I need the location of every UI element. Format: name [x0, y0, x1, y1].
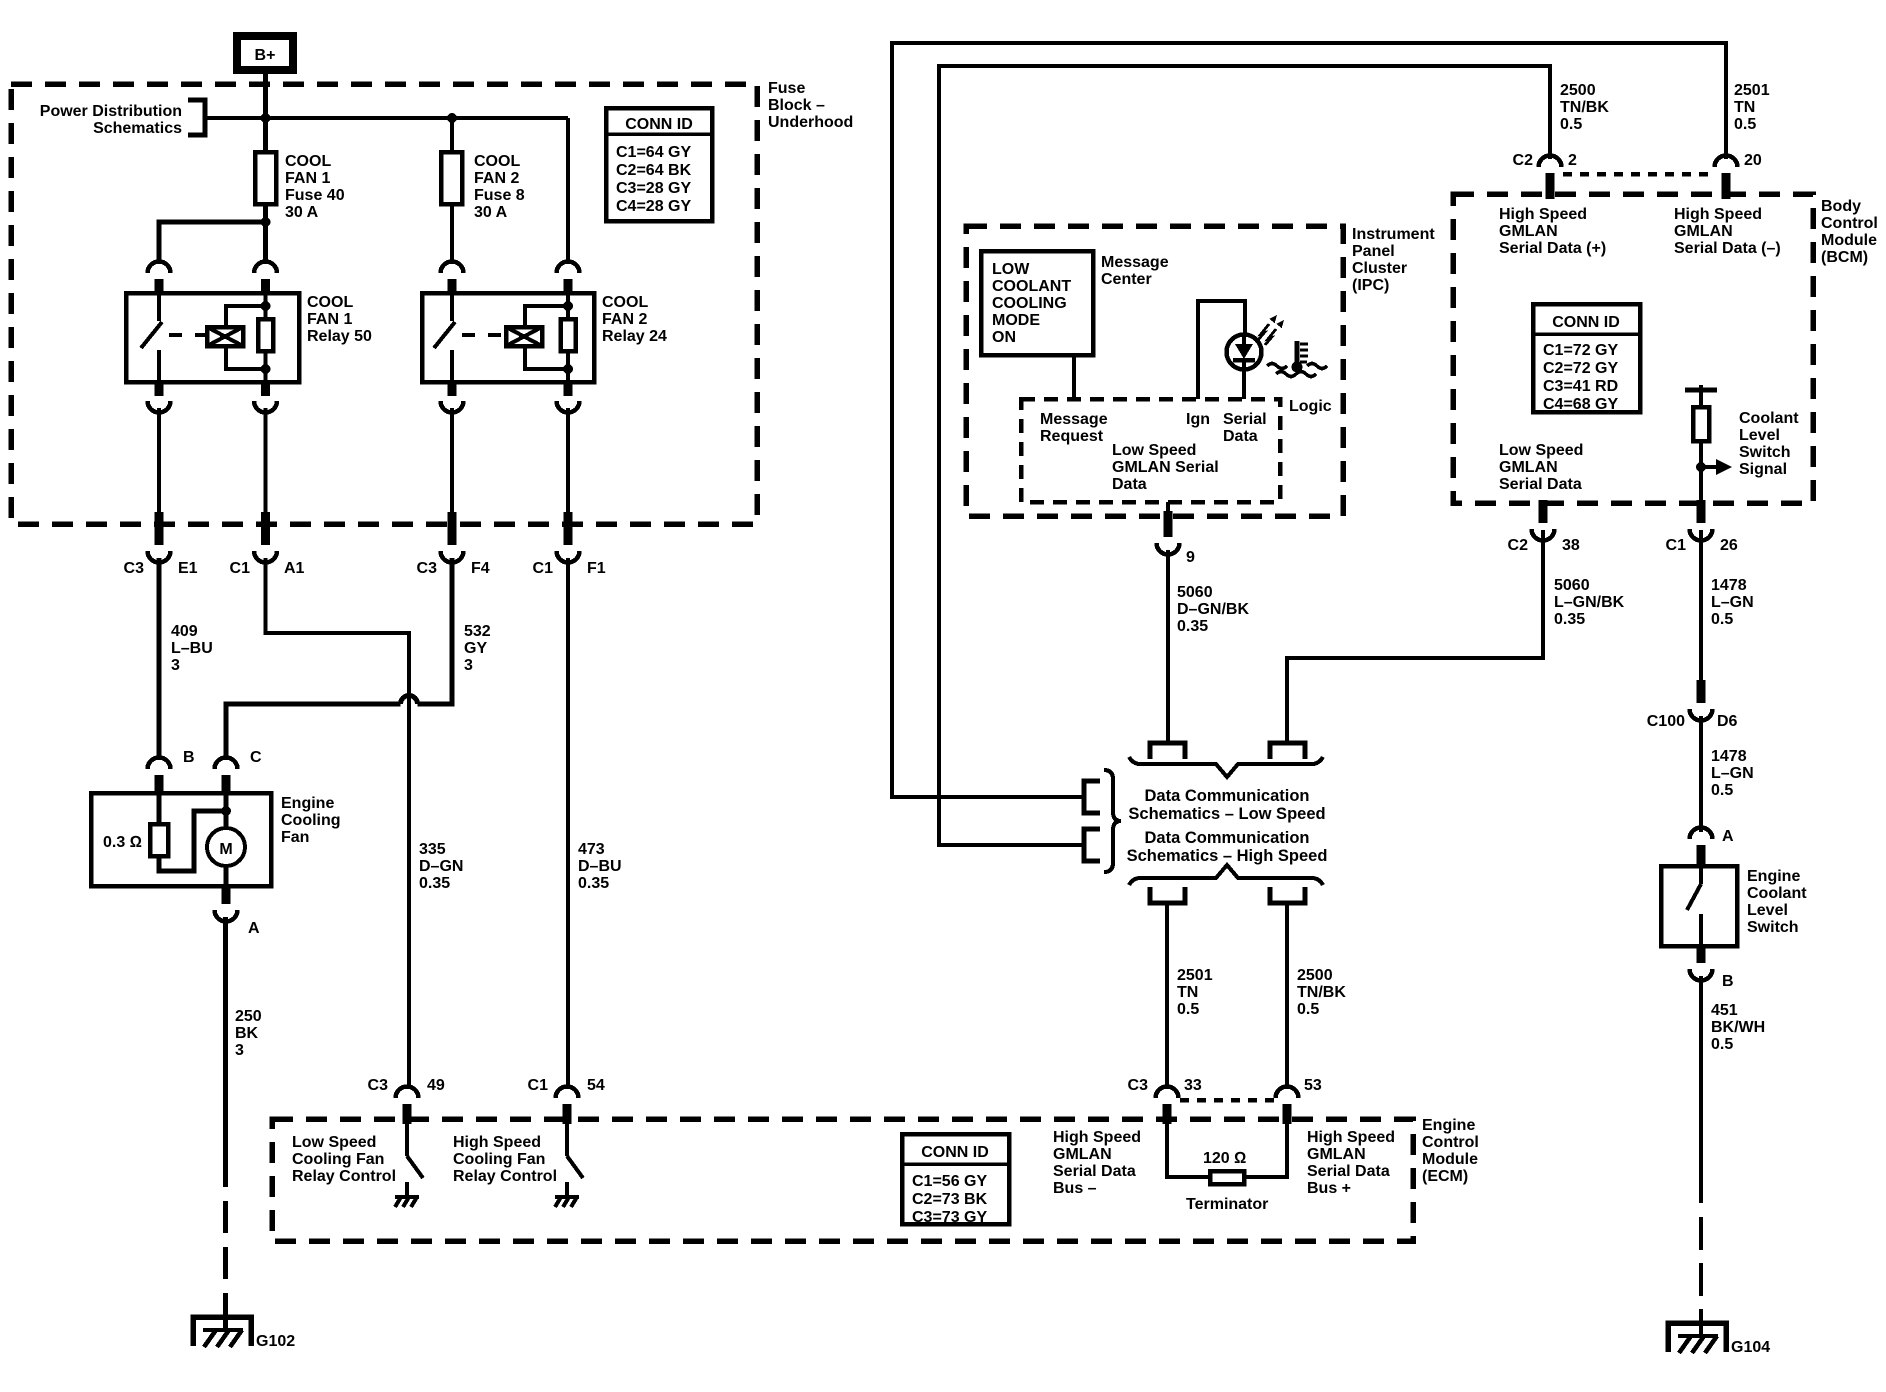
- svg-text:COOLANT: COOLANT: [992, 278, 1071, 295]
- fuse block underhood dashed box: [11, 84, 757, 524]
- svg-text:Serial Data (–): Serial Data (–): [1674, 240, 1781, 257]
- resistor terminator 120 ohm: [1167, 1124, 1287, 1213]
- resistor 0.3 ohm: [103, 795, 168, 856]
- svg-text:(ECM): (ECM): [1422, 1168, 1468, 1185]
- svg-text:FAN 1: FAN 1: [307, 311, 352, 328]
- wire Ign feed: [1198, 301, 1245, 399]
- relay K2 coil resistor: [561, 295, 576, 382]
- svg-text:D–GN: D–GN: [419, 858, 463, 875]
- brace lower: [1129, 865, 1323, 885]
- svg-text:473: 473: [578, 841, 605, 858]
- svg-text:Module: Module: [1821, 232, 1877, 249]
- svg-text:9: 9: [1186, 549, 1195, 566]
- wire dashed link pins 2-20: [1563, 172, 1713, 177]
- wire power rail: [205, 116, 568, 120]
- switch high speed relay control driver: [567, 1124, 583, 1197]
- svg-text:Low Speed: Low Speed: [292, 1134, 376, 1151]
- svg-text:C3: C3: [368, 1077, 389, 1094]
- connector C3 pin F4: [417, 512, 490, 577]
- svg-text:E1: E1: [178, 560, 198, 577]
- IPC dashed box: [966, 226, 1343, 516]
- wire relay2 switch to connector F4: [450, 408, 454, 514]
- svg-text:Terminator: Terminator: [1186, 1196, 1268, 1213]
- wire 409 L-BU 3: [159, 558, 213, 756]
- wire dashed link pins 33-53: [1180, 1098, 1274, 1103]
- wire 335 D-GN 0.35: [266, 558, 464, 1088]
- label High Speed GMLAN Serial Data (+): [1499, 206, 1606, 257]
- relay K2 switch contact: [434, 295, 455, 382]
- off-page symbol upper right: [1270, 743, 1305, 759]
- svg-text:F4: F4: [471, 560, 490, 577]
- svg-text:0.5: 0.5: [1711, 782, 1733, 799]
- relay K2 actuator dashed link: [462, 333, 506, 337]
- svg-text:Cooling Fan: Cooling Fan: [453, 1151, 545, 1168]
- node K2 coil top junction: [563, 301, 573, 311]
- CONN ID table fuse block: [606, 108, 712, 221]
- svg-text:LOW: LOW: [992, 261, 1030, 278]
- svg-text:33: 33: [1184, 1077, 1202, 1094]
- svg-text:Serial Data (+): Serial Data (+): [1499, 240, 1606, 257]
- svg-text:Switch: Switch: [1747, 919, 1799, 936]
- svg-text:C3=41 RD: C3=41 RD: [1543, 378, 1618, 395]
- svg-text:250: 250: [235, 1008, 262, 1025]
- CONN ID table BCM: [1533, 304, 1640, 413]
- connector BCM C2 pin 38: [1508, 500, 1580, 554]
- svg-text:High Speed: High Speed: [1499, 206, 1587, 223]
- wire resistor to motor: [159, 811, 226, 871]
- svg-text:C1: C1: [1666, 537, 1687, 554]
- wire 1478 L-GN 0.5 lower: [1701, 716, 1754, 832]
- svg-text:Control: Control: [1821, 215, 1878, 232]
- svg-text:GMLAN: GMLAN: [1499, 223, 1558, 240]
- wire fuse1 to relay1 coil pin: [263, 204, 268, 264]
- svg-text:0.5: 0.5: [1734, 116, 1756, 133]
- svg-text:Serial: Serial: [1223, 411, 1267, 428]
- svg-text:BK/WH: BK/WH: [1711, 1019, 1765, 1036]
- svg-text:BK: BK: [235, 1025, 259, 1042]
- svg-text:Ign: Ign: [1186, 411, 1210, 428]
- svg-text:C1: C1: [533, 560, 554, 577]
- svg-text:B: B: [1722, 973, 1734, 990]
- svg-text:Cooling: Cooling: [281, 812, 341, 829]
- svg-text:2500: 2500: [1297, 967, 1333, 984]
- node Power Distribution Schematics: [40, 100, 205, 137]
- svg-text:Schematics: Schematics: [93, 120, 182, 137]
- wire K2 solenoid branch loop: [525, 306, 568, 369]
- svg-text:Center: Center: [1101, 271, 1152, 288]
- fuse COOL FAN 1 Fuse 40: [255, 152, 345, 221]
- svg-text:30 A: 30 A: [285, 204, 319, 221]
- svg-text:L–GN/BK: L–GN/BK: [1554, 594, 1625, 611]
- wire relay2 coil to connector F1: [566, 408, 570, 514]
- svg-text:2: 2: [1568, 152, 1577, 169]
- svg-text:Fuse: Fuse: [768, 80, 805, 97]
- svg-text:TN/BK: TN/BK: [1560, 99, 1609, 116]
- connector ECM C1 pin 54: [528, 1077, 605, 1124]
- connector IPC pin 9: [1157, 511, 1196, 566]
- LED light arrows: [1258, 315, 1284, 345]
- svg-text:53: 53: [1304, 1077, 1322, 1094]
- wire 473 D-BU 0.35: [568, 558, 622, 1088]
- svg-text:C1=56 GY: C1=56 GY: [912, 1173, 987, 1190]
- svg-text:Cluster: Cluster: [1352, 260, 1407, 277]
- svg-text:A1: A1: [284, 560, 305, 577]
- svg-text:C3: C3: [1128, 1077, 1149, 1094]
- svg-text:Level: Level: [1747, 902, 1788, 919]
- label Body Control Module (BCM): [1821, 198, 1878, 266]
- svg-text:C4=28 GY: C4=28 GY: [616, 198, 691, 215]
- svg-text:Fan: Fan: [281, 829, 309, 846]
- svg-text:High Speed: High Speed: [453, 1134, 541, 1151]
- svg-text:MODE: MODE: [992, 312, 1040, 329]
- label High Speed GMLAN Serial Data (-): [1674, 206, 1781, 257]
- arrow coolant level switch signal: [1701, 459, 1732, 475]
- svg-text:L–GN: L–GN: [1711, 594, 1754, 611]
- svg-text:Bus +: Bus +: [1307, 1180, 1351, 1197]
- engine coolant level switch box: [1661, 866, 1807, 946]
- label Low Speed Cooling Fan Relay Control: [292, 1134, 396, 1185]
- svg-text:COOL: COOL: [285, 153, 331, 170]
- svg-text:Serial Data: Serial Data: [1053, 1163, 1136, 1180]
- connector BCM C2 pin 2: [1513, 152, 1577, 199]
- svg-text:COOLING: COOLING: [992, 295, 1067, 312]
- svg-text:C2=73 BK: C2=73 BK: [912, 1191, 988, 1208]
- svg-text:High Speed: High Speed: [1307, 1129, 1395, 1146]
- svg-text:Serial Data: Serial Data: [1499, 476, 1582, 493]
- svg-text:C: C: [250, 749, 262, 766]
- svg-text:Relay 50: Relay 50: [307, 328, 372, 345]
- svg-text:Level: Level: [1739, 427, 1780, 444]
- svg-text:GMLAN: GMLAN: [1499, 459, 1558, 476]
- svg-text:GMLAN: GMLAN: [1674, 223, 1733, 240]
- svg-text:L–BU: L–BU: [171, 640, 213, 657]
- svg-text:GMLAN: GMLAN: [1307, 1146, 1366, 1163]
- label High Speed Cooling Fan Relay Control: [453, 1134, 557, 1185]
- logic dashed box: [1021, 399, 1280, 502]
- connector fan pin C: [215, 749, 263, 795]
- svg-text:B+: B+: [255, 47, 276, 64]
- ground G104: [1668, 1323, 1770, 1356]
- svg-text:120 Ω: 120 Ω: [1203, 1150, 1246, 1167]
- ground internal low speed driver: [395, 1197, 419, 1207]
- svg-text:0.5: 0.5: [1560, 116, 1582, 133]
- label High Speed GMLAN Serial Data Bus +: [1307, 1129, 1395, 1197]
- connector relay1 pin 87 lower: [148, 381, 171, 413]
- svg-text:CONN ID: CONN ID: [625, 116, 693, 133]
- relay K1 switch contact: [141, 295, 162, 382]
- connector C3 pin E1: [124, 512, 198, 577]
- connector relay2 pin 30 (F4 side): [441, 262, 464, 296]
- svg-text:20: 20: [1744, 152, 1762, 169]
- svg-text:Data: Data: [1223, 428, 1258, 445]
- svg-text:C3: C3: [124, 560, 145, 577]
- relay K1 COOL FAN 1 Relay 50: [126, 293, 372, 382]
- svg-text:Message: Message: [1040, 411, 1108, 428]
- svg-text:2500: 2500: [1560, 82, 1596, 99]
- svg-text:Instrument: Instrument: [1352, 226, 1435, 243]
- ground internal high speed driver: [555, 1197, 579, 1207]
- svg-text:Logic: Logic: [1289, 398, 1332, 415]
- svg-text:3: 3: [171, 657, 180, 674]
- svg-text:Block –: Block –: [768, 97, 825, 114]
- svg-text:Switch: Switch: [1739, 444, 1791, 461]
- svg-text:0.5: 0.5: [1297, 1001, 1319, 1018]
- connector ECM C3 pin 49: [368, 1077, 445, 1124]
- svg-text:C2: C2: [1508, 537, 1529, 554]
- connector relay2 pin 85 lower: [557, 381, 580, 413]
- wire 532 GY 3: [226, 558, 491, 756]
- svg-text:2501: 2501: [1734, 82, 1770, 99]
- relay K1 coil resistor: [258, 295, 273, 382]
- wire 1478 L-GN 0.5 upper: [1701, 530, 1754, 682]
- label High Speed GMLAN Serial Data Bus -: [1053, 1129, 1141, 1197]
- switch low speed relay control driver: [407, 1124, 423, 1197]
- svg-text:C1=72 GY: C1=72 GY: [1543, 342, 1618, 359]
- svg-text:Relay Control: Relay Control: [292, 1168, 396, 1185]
- svg-text:TN: TN: [1177, 984, 1198, 1001]
- svg-text:Engine: Engine: [1422, 1117, 1475, 1134]
- svg-text:TN/BK: TN/BK: [1297, 984, 1346, 1001]
- motor M engine cooling fan: [207, 795, 245, 886]
- node K1 coil top junction: [261, 301, 271, 311]
- svg-text:L–GN: L–GN: [1711, 765, 1754, 782]
- ground G102: [193, 1317, 295, 1350]
- connector ECM pin 53: [1276, 1077, 1322, 1124]
- svg-text:D–BU: D–BU: [578, 858, 622, 875]
- svg-text:54: 54: [587, 1077, 605, 1094]
- battery feed B+: [237, 36, 293, 70]
- svg-text:(BCM): (BCM): [1821, 249, 1868, 266]
- svg-text:G102: G102: [256, 1333, 295, 1350]
- svg-text:COOL: COOL: [307, 294, 353, 311]
- svg-text:TN: TN: [1734, 99, 1755, 116]
- svg-text:Coolant: Coolant: [1747, 885, 1807, 902]
- svg-text:26: 26: [1720, 537, 1738, 554]
- svg-text:532: 532: [464, 623, 491, 640]
- label Low Speed GMLAN Serial Data BCM: [1499, 442, 1583, 493]
- svg-text:Bus –: Bus –: [1053, 1180, 1097, 1197]
- BCM dashed box: [1453, 194, 1813, 503]
- svg-text:2501: 2501: [1177, 967, 1213, 984]
- svg-text:0.3 Ω: 0.3 Ω: [103, 834, 142, 851]
- svg-text:38: 38: [1562, 537, 1580, 554]
- off-page pointer low speed row: [1084, 781, 1100, 813]
- svg-text:C2=72 GY: C2=72 GY: [1543, 360, 1618, 377]
- LED indicator lamp: [1227, 334, 1262, 399]
- indicator LOW COOLANT COOLING MODE ON box: [981, 251, 1093, 355]
- off-page pointer high speed row: [1084, 829, 1100, 861]
- svg-text:GMLAN: GMLAN: [1053, 1146, 1112, 1163]
- label Fuse Block Underhood: [768, 80, 853, 131]
- wire loop A to BCM pin 20: [892, 43, 1726, 797]
- svg-text:C2=64 BK: C2=64 BK: [616, 162, 692, 179]
- node junction rail-fuse1: [261, 113, 271, 123]
- connector switch pin B: [1690, 944, 1734, 990]
- connector relay2 pin 86 (F1 side): [557, 262, 580, 296]
- svg-text:49: 49: [427, 1077, 445, 1094]
- label Serial Data: [1223, 411, 1267, 445]
- svg-text:Body: Body: [1821, 198, 1861, 215]
- svg-text:CONN ID: CONN ID: [921, 1144, 989, 1161]
- svg-text:Fuse 40: Fuse 40: [285, 187, 345, 204]
- svg-text:Engine: Engine: [1747, 868, 1800, 885]
- svg-text:Module: Module: [1422, 1151, 1478, 1168]
- svg-text:D–GN/BK: D–GN/BK: [1177, 601, 1249, 618]
- wire branch to relay1 switch pin: [159, 222, 266, 264]
- svg-text:30 A: 30 A: [474, 204, 508, 221]
- label wire 2501 TN 0.5 top: [1734, 82, 1770, 133]
- wire 2501 TN 0.5 to pin 33: [1167, 903, 1213, 1088]
- svg-text:Serial Data: Serial Data: [1307, 1163, 1390, 1180]
- svg-text:Control: Control: [1422, 1134, 1479, 1151]
- connector relay1 pin 85 lower: [254, 381, 277, 413]
- label Ign: [1186, 411, 1210, 428]
- wire 451 BK/WH 0.5: [1701, 976, 1765, 1336]
- svg-text:3: 3: [464, 657, 473, 674]
- svg-text:Relay 24: Relay 24: [602, 328, 667, 345]
- label Coolant Level Switch Signal: [1739, 410, 1799, 478]
- label Logic: [1289, 398, 1332, 415]
- svg-text:0.5: 0.5: [1711, 611, 1733, 628]
- node junction below fuse1: [261, 217, 271, 227]
- svg-text:0.35: 0.35: [1554, 611, 1585, 628]
- svg-text:Low Speed: Low Speed: [1499, 442, 1583, 459]
- CONN ID table ECM: [902, 1134, 1009, 1226]
- svg-text:0.5: 0.5: [1177, 1001, 1199, 1018]
- wire logic to pin 9: [1166, 502, 1170, 514]
- fuse COOL FAN 2 Fuse 8: [441, 118, 525, 221]
- svg-text:C1: C1: [230, 560, 251, 577]
- svg-text:C100: C100: [1647, 713, 1685, 730]
- wire BCM 38 to low speed off-page: [1287, 530, 1543, 742]
- coolant level switch signal pull-up: [1685, 385, 1717, 503]
- svg-text:FAN 2: FAN 2: [602, 311, 647, 328]
- svg-text:C1=64 GY: C1=64 GY: [616, 144, 691, 161]
- brace data communication left: [1104, 770, 1121, 872]
- connector switch pin A: [1690, 828, 1735, 869]
- node K2 coil bottom junction: [563, 364, 573, 374]
- svg-text:0.5: 0.5: [1711, 1036, 1733, 1053]
- off-page symbol lower right: [1270, 887, 1305, 903]
- svg-text:CONN ID: CONN ID: [1552, 314, 1620, 331]
- svg-text:Relay Control: Relay Control: [453, 1168, 557, 1185]
- wire relay1 coil to connector A1: [264, 408, 268, 514]
- relay K2 solenoid X symbol: [506, 327, 542, 346]
- svg-text:(IPC): (IPC): [1352, 277, 1389, 294]
- svg-text:Low Speed: Low Speed: [1112, 442, 1196, 459]
- connector C1 pin A1: [230, 512, 305, 577]
- svg-text:D6: D6: [1717, 713, 1738, 730]
- node K1 coil bottom junction: [261, 364, 271, 374]
- wire 250 BK 3: [226, 917, 262, 1331]
- label Data Communication Schematics High Speed: [1127, 829, 1328, 865]
- svg-text:Cooling Fan: Cooling Fan: [292, 1151, 384, 1168]
- connector fan pin B: [148, 749, 195, 795]
- connector fan pin A: [215, 885, 261, 937]
- node coolant level sense junction: [1696, 462, 1706, 472]
- ECM dashed box: [272, 1119, 1413, 1241]
- connector relay1 pin 30 (E1 side): [148, 262, 171, 296]
- label Message Request: [1040, 411, 1108, 445]
- svg-text:Schematics – Low Speed: Schematics – Low Speed: [1128, 805, 1325, 823]
- wire K1 solenoid branch loop: [226, 306, 266, 369]
- svg-text:C3=73 GY: C3=73 GY: [912, 1209, 987, 1226]
- relay K1 actuator dashed link: [169, 333, 207, 337]
- brace upper: [1129, 757, 1323, 777]
- svg-text:Message: Message: [1101, 254, 1169, 271]
- connector BCM pin 20: [1715, 152, 1762, 199]
- svg-text:451: 451: [1711, 1002, 1738, 1019]
- svg-text:B: B: [183, 749, 195, 766]
- svg-text:C4=68 GY: C4=68 GY: [1543, 396, 1618, 413]
- wire loop B to BCM pin 2: [939, 66, 1550, 845]
- svg-text:COOL: COOL: [602, 294, 648, 311]
- svg-text:Power Distribution: Power Distribution: [40, 103, 182, 120]
- wire B+ to rail: [263, 72, 268, 152]
- svg-text:0.35: 0.35: [1177, 618, 1208, 635]
- svg-text:Data Communication: Data Communication: [1144, 787, 1309, 805]
- label Message Center: [1101, 254, 1169, 288]
- connector C100 pin D6: [1647, 680, 1738, 730]
- node junction rail-fuse2: [447, 113, 457, 123]
- svg-text:0.35: 0.35: [419, 875, 450, 892]
- relay K2 COOL FAN 2 Relay 24: [422, 293, 667, 382]
- wire message request: [1072, 355, 1076, 399]
- wire fuse2 to relay2 switch pin: [450, 204, 454, 264]
- svg-text:COOL: COOL: [474, 153, 520, 170]
- connector C1 pin F1: [533, 512, 606, 577]
- relay K1 solenoid X symbol: [207, 327, 243, 346]
- svg-text:FAN 2: FAN 2: [474, 170, 519, 187]
- label Instrument Panel Cluster (IPC): [1352, 226, 1435, 294]
- svg-text:Request: Request: [1040, 428, 1104, 445]
- svg-text:5060: 5060: [1554, 577, 1590, 594]
- svg-text:A: A: [1722, 828, 1734, 845]
- wire 2500 TN/BK 0.5 to pin 53: [1287, 903, 1346, 1088]
- label Engine Control Module (ECM): [1422, 1117, 1479, 1185]
- engine cooling fan box: [91, 793, 341, 886]
- svg-text:Signal: Signal: [1739, 461, 1787, 478]
- svg-text:ON: ON: [992, 329, 1016, 346]
- label Low Speed GMLAN Serial Data: [1112, 442, 1219, 493]
- connector BCM C1 pin 26: [1666, 500, 1738, 554]
- svg-text:G104: G104: [1731, 1339, 1770, 1356]
- node motor top junction: [221, 806, 231, 816]
- wire rail to relay2 coil pin: [566, 118, 570, 264]
- svg-text:Fuse 8: Fuse 8: [474, 187, 525, 204]
- svg-text:C1: C1: [528, 1077, 549, 1094]
- svg-text:3: 3: [235, 1042, 244, 1059]
- svg-text:C2: C2: [1513, 152, 1534, 169]
- off-page symbol lower left: [1150, 887, 1185, 903]
- connector relay2 pin 87 lower: [441, 381, 464, 413]
- svg-text:C3=28 GY: C3=28 GY: [616, 180, 691, 197]
- svg-text:High Speed: High Speed: [1053, 1129, 1141, 1146]
- connector ECM C3 pin 33: [1128, 1077, 1202, 1124]
- off-page symbol upper left: [1150, 743, 1185, 759]
- switch coolant level contact: [1687, 868, 1701, 946]
- svg-text:Data: Data: [1112, 476, 1147, 493]
- svg-text:Engine: Engine: [281, 795, 334, 812]
- connector relay1 pin 86 (A1 side): [254, 262, 277, 296]
- label wire 5060 L-GN/BK 0.35: [1554, 577, 1625, 628]
- svg-text:FAN 1: FAN 1: [285, 170, 330, 187]
- svg-text:1478: 1478: [1711, 577, 1747, 594]
- wire 5060 D-GN/BK 0.35: [1168, 550, 1249, 742]
- svg-text:0.35: 0.35: [578, 875, 609, 892]
- svg-text:M: M: [219, 841, 232, 858]
- label Data Communication Schematics Low Speed: [1128, 787, 1325, 823]
